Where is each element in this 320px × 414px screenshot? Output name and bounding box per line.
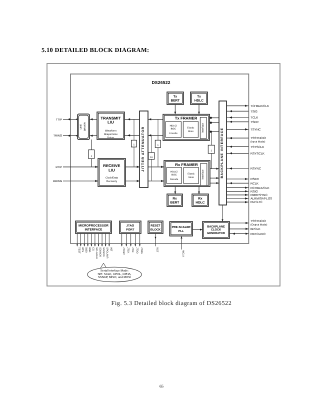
svg-text:JTDO: JTDO: [135, 247, 138, 253]
wire Rx FRAMER backplane 3: [210, 182, 219, 184]
svg-text:RSYNC: RSYNC: [251, 167, 262, 171]
svg-text:RSYSCLK: RSYSCLK: [251, 151, 265, 155]
wire backplane to clock gen: [222, 205, 224, 222]
svg-text:TSYNC: TSYNC: [251, 128, 262, 132]
svg-text:BERT: BERT: [170, 201, 179, 205]
signal TSER: [227, 120, 260, 124]
pin BIS0: [84, 234, 88, 254]
wire Rx FRAMER backplane 2: [210, 177, 219, 179]
signal RLF/LTC: [227, 200, 264, 204]
svg-text:DRIVER: DRIVER: [84, 122, 87, 131]
svg-text:Interface: Interface: [202, 169, 205, 179]
svg-text:Decode: Decode: [170, 178, 179, 181]
wire Tx BERT to Tx FRAMER: [174, 105, 176, 115]
svg-text:JTCK: JTCK: [126, 247, 129, 253]
subblock Tx IBO: [200, 117, 206, 138]
svg-text:DS26522: DS26522: [152, 80, 171, 85]
svg-text:HDLC: HDLC: [194, 99, 204, 103]
block RESET BLOCK: [148, 221, 163, 234]
signal TSYSCLK: [227, 145, 265, 149]
callout ellipse serial interface mode: [88, 267, 142, 282]
signal BPCLK: [230, 227, 261, 231]
svg-text:INT: INT: [109, 247, 112, 251]
block Tx FRAMER: [163, 114, 210, 140]
figure caption: [111, 300, 231, 307]
signal RSIG: [227, 189, 259, 193]
wire TTIP: [63, 118, 78, 120]
svg-text:TSER: TSER: [251, 120, 260, 124]
svg-text:MCLK: MCLK: [182, 250, 185, 257]
pin label RTIP: [56, 165, 62, 169]
svg-text:(Output Mode): (Output Mode): [251, 223, 268, 226]
block BACKPLANE INTERFACE: [219, 101, 227, 205]
signal TSSYNCIO: [227, 136, 267, 143]
svg-text:JTMS: JTMS: [140, 247, 143, 254]
wire RTIP: [63, 166, 98, 168]
svg-text:BTS: BTS: [81, 247, 84, 252]
page number: [160, 383, 164, 388]
svg-text:JITTER ATTENUATOR: JITTER ATTENUATOR: [141, 126, 145, 172]
jitter attenuator bypass right outer: [157, 119, 159, 167]
svg-text:INTERFACE: INTERFACE: [85, 227, 103, 231]
svg-text:REFCLKIO: REFCLKIO: [251, 232, 267, 236]
block Rx HDLC: [192, 194, 209, 207]
mux box tssync: [208, 145, 214, 153]
signal RCHBLK/CLK: [227, 186, 270, 190]
svg-text:BLOCK: BLOCK: [150, 227, 161, 231]
svg-text:SDI/AD0: SDI/AD0: [99, 247, 102, 257]
svg-text:TSIG: TSIG: [251, 109, 259, 113]
svg-text:BOC: BOC: [171, 127, 176, 130]
wire buffer to LIU lower: [90, 135, 98, 137]
subblock Rx Elastic Store: [184, 168, 199, 184]
jitter attenuator bypass right inner: [150, 135, 152, 181]
wire TSYNC internal vertical: [210, 132, 212, 169]
pin SCLK/ALE: [94, 234, 98, 260]
svg-text:TCHBLK/CLK: TCHBLK/CLK: [251, 104, 270, 108]
block line driver buffer: [78, 114, 90, 140]
wire Tx FRAMER backplane 2: [210, 122, 220, 124]
signal TSYNC: [227, 128, 262, 132]
svg-text:JA: JA: [150, 156, 153, 159]
signal RMRFSYNC: [227, 193, 269, 197]
signal REFCLKIO: [230, 232, 267, 236]
mux box tx select: [131, 140, 136, 147]
pin JTDI: [130, 234, 134, 253]
block MICROPROCESSOR INTERFACE: [76, 221, 112, 234]
pin JTDO: [135, 234, 139, 254]
wire Tx HDLC to Tx FRAMER: [198, 105, 200, 115]
wire Tx FRAMER backplane 3: [210, 131, 220, 133]
signal TSIG: [227, 109, 259, 113]
svg-text:BOC: BOC: [172, 173, 177, 176]
wire buffer to LIU upper: [90, 118, 98, 120]
signal RCLK: [227, 181, 259, 185]
svg-text:Fig. 5.3 Detailed block diagr: Fig. 5.3 Detailed block diagram of DS265…: [111, 300, 231, 307]
svg-text:BERT: BERT: [171, 99, 180, 103]
block PRE-SCALER PLL: [170, 222, 193, 237]
wire PLL to clock gen: [193, 229, 203, 231]
signal TCLK: [227, 116, 259, 120]
pin CS: [91, 234, 95, 251]
subblock Tx Elastic Store: [183, 122, 198, 138]
wire tx path upper: [125, 118, 164, 120]
signal RSYNC: [227, 167, 262, 171]
svg-text:LINE: LINE: [80, 124, 83, 130]
wire Rx FRAMER backplane 1: [210, 168, 219, 170]
block BACKPLANE CLOCK GENERATOR: [203, 222, 230, 239]
block Rx BERT: [167, 194, 183, 207]
signal TCHBLK/CLK: [227, 104, 270, 108]
svg-text:Driver: Driver: [107, 136, 114, 139]
block Tx BERT: [167, 92, 184, 105]
pin JTCK: [126, 234, 130, 254]
section heading: [42, 47, 150, 54]
svg-text:Rx FRAMER: Rx FRAMER: [175, 162, 198, 167]
svg-text:SDO/RD: SDO/RD: [102, 247, 105, 257]
svg-text:JTRST: JTRST: [122, 247, 125, 255]
pin label TRING: [53, 134, 62, 138]
callout pointer: [101, 263, 107, 268]
pin TEST: [76, 234, 80, 254]
wire Rx FRAMER to Rx BERT: [174, 187, 176, 195]
wire rx path upper: [126, 166, 165, 168]
signal TSSYNCIO output: [230, 219, 268, 226]
block Tx HDLC: [191, 92, 208, 105]
mux box loopback: [89, 150, 95, 159]
svg-text:Encode: Encode: [169, 132, 178, 135]
svg-text:RTIP: RTIP: [56, 165, 62, 169]
svg-text:RCLK: RCLK: [251, 181, 259, 185]
pin MCLK: [181, 236, 185, 257]
svg-text:JTDI: JTDI: [131, 247, 134, 252]
mux box ja select: [148, 153, 154, 160]
svg-text:GENERATOR: GENERATOR: [207, 231, 225, 235]
pin JTMS: [139, 234, 143, 254]
wire rx path lower: [126, 180, 165, 182]
figure border frame: [47, 64, 280, 287]
signal RSER: [227, 177, 260, 181]
signal ALRM/SF/FLOS: [227, 197, 273, 201]
svg-text:SCLK/ALE: SCLK/ALE: [95, 247, 98, 259]
svg-text:TTIP: TTIP: [56, 117, 62, 121]
svg-text:Store: Store: [188, 130, 194, 133]
svg-text:PLL: PLL: [178, 229, 184, 233]
svg-text:RLF/LTC: RLF/LTC: [251, 200, 264, 204]
chip boundary box: [71, 74, 249, 244]
wire tx path lower: [125, 134, 164, 136]
svg-text:BACKPLANE INTERFACE: BACKPLANE INTERFACE: [220, 127, 224, 178]
svg-text:RST: RST: [156, 247, 159, 252]
svg-text:LIU: LIU: [109, 167, 115, 172]
wire TRING: [63, 135, 78, 137]
chip title DS26522: [152, 80, 171, 85]
svg-text:65: 65: [160, 383, 164, 388]
svg-text:BIS1: BIS1: [88, 247, 91, 253]
pin SDI/AD0: [98, 234, 102, 258]
svg-text:TSYSCLK: TSYSCLK: [251, 145, 265, 149]
svg-text:HDLC: HDLC: [196, 201, 206, 205]
pin label RRING: [53, 179, 62, 183]
svg-text:PORT: PORT: [126, 227, 135, 231]
svg-text:5.10 DETAILED BLOCK DIAGRAM:: 5.10 DETAILED BLOCK DIAGRAM:: [42, 47, 150, 54]
svg-text:LIU: LIU: [108, 120, 114, 125]
pin SPOL/WR: [105, 234, 109, 259]
pin SDO/RD: [101, 234, 105, 257]
svg-text:Interface: Interface: [201, 122, 204, 132]
svg-text:SPOL/WR: SPOL/WR: [106, 247, 109, 258]
svg-text:BPCLK: BPCLK: [251, 227, 261, 231]
jitter attenuator bypass left: [133, 119, 135, 167]
svg-text:TEST: TEST: [77, 247, 80, 254]
svg-text:CS: CS: [92, 247, 95, 251]
mux box bypass right: [155, 140, 160, 147]
svg-text:(Input Mode): (Input Mode): [251, 140, 266, 143]
svg-text:TRING: TRING: [53, 134, 62, 138]
wire LIU loopback vertical: [90, 140, 92, 167]
pin BIS1: [87, 234, 91, 254]
svg-text:Recovery: Recovery: [106, 180, 117, 183]
pin BTS: [80, 234, 84, 253]
block TRANSMIT LIU: [97, 112, 125, 140]
svg-text:SSNAP, MISO, and MOSI: SSNAP, MISO, and MOSI: [98, 275, 131, 279]
block RECEIVE LIU: [98, 159, 126, 187]
pin JTRST: [121, 234, 125, 255]
wire RRING: [63, 180, 98, 182]
signal RSYSCLK: [227, 151, 265, 155]
svg-text:RRING: RRING: [53, 179, 62, 183]
block Rx FRAMER: [164, 161, 210, 187]
subblock Rx IBO: [200, 164, 207, 186]
svg-text:Tx FRAMER: Tx FRAMER: [175, 116, 197, 121]
subblock HDLC BOC Encode: [166, 122, 182, 138]
pin INT: [108, 234, 112, 252]
block JTAG PORT: [120, 221, 142, 234]
svg-text:BIS0: BIS0: [84, 247, 87, 253]
block JITTER ATTENUATOR: [140, 111, 149, 188]
pin RST: [155, 234, 159, 253]
wire Tx FRAMER backplane 1: [210, 117, 220, 119]
wire Rx FRAMER to Rx HDLC: [198, 187, 200, 195]
svg-text:Store: Store: [188, 176, 194, 179]
subblock HDLC BOC Decode: [167, 168, 182, 184]
pin label TTIP: [56, 117, 62, 121]
